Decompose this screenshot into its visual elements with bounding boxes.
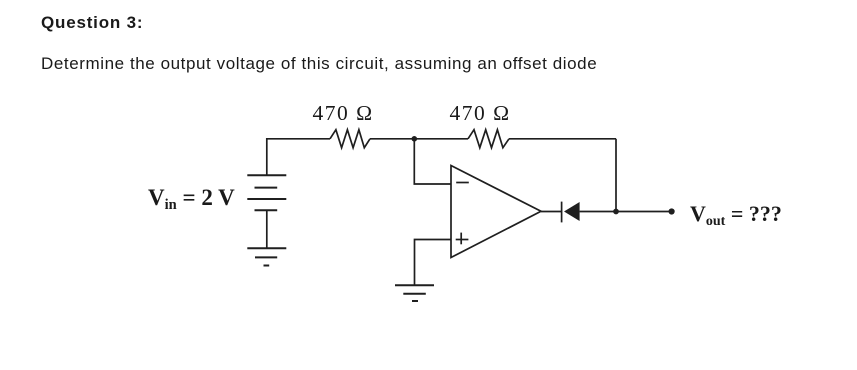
node B junction [613,209,619,215]
output terminal [669,208,675,214]
op-amp U1 [451,166,541,258]
svg-text:Vin = 2 V: Vin = 2 V [148,185,235,213]
wire battery to ground [266,210,268,248]
wire node A to inverting input [414,139,451,184]
question description [41,54,597,74]
resistor R2 [468,130,509,148]
wire battery top to resistor R1 [267,139,330,175]
ground G2 [247,247,286,249]
wire node B to output terminal [616,211,672,213]
wire node A to resistor R2 [414,138,468,140]
ground G1 [395,284,434,286]
question heading [41,13,143,33]
wire feedback vertical [615,139,617,212]
wire op-amp output to diode [541,211,562,213]
wire R2 to feedback corner [509,138,616,140]
svg-text:Vout = ???: Vout = ??? [690,201,782,229]
svg-text:470 Ω: 470 Ω [450,101,511,125]
battery V1 [247,174,286,176]
wire R1 to node A [370,138,414,140]
resistor R1 [330,130,370,148]
diode D1 [561,202,563,223]
wire ground to non-inverting input [415,240,452,286]
node A junction [412,136,418,142]
wire diode to node B [580,211,616,213]
op-amp plus sign [456,239,469,241]
op-amp minus sign [456,182,469,184]
svg-text:470 Ω: 470 Ω [313,101,374,125]
